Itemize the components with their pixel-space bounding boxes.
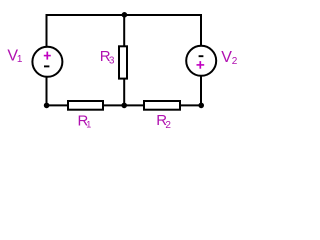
wire right vertical upper (top rail to V2 top) bbox=[200, 14, 202, 46]
label R3 bbox=[100, 48, 115, 67]
V1 plus terminal mark bbox=[44, 52, 51, 60]
voltage source V1 bbox=[32, 47, 62, 77]
voltage source V2 bbox=[186, 46, 216, 76]
label V1 bbox=[7, 47, 23, 65]
svg-text:2: 2 bbox=[232, 56, 238, 67]
junction bottom right bbox=[198, 103, 204, 109]
wire middle vertical upper (top junction to R3 top) bbox=[123, 15, 125, 46]
wire left vertical upper (top rail to V1 top) bbox=[46, 14, 48, 47]
wire left vertical lower (V1 bottom to bottom rail) bbox=[46, 77, 48, 106]
V1 minus terminal mark bbox=[44, 65, 49, 67]
resistor R3 (vertical) bbox=[119, 46, 127, 78]
svg-text:V: V bbox=[221, 49, 232, 66]
svg-text:2: 2 bbox=[165, 120, 171, 131]
wire middle vertical lower (R3 bottom to bottom junction) bbox=[123, 79, 125, 105]
wire top horizontal (node A rail) bbox=[46, 14, 203, 16]
junction bottom middle bbox=[121, 103, 127, 109]
wire right vertical lower (V2 bottom to bottom rail) bbox=[200, 76, 202, 106]
svg-text:1: 1 bbox=[86, 119, 91, 129]
wire bottom horizontal (bottom rail) bbox=[47, 104, 202, 106]
label R1 bbox=[78, 113, 92, 130]
junction bottom left bbox=[44, 103, 50, 109]
junction top (V1/R3/V2 top node) bbox=[122, 12, 128, 18]
label R2 bbox=[156, 112, 171, 131]
svg-text:1: 1 bbox=[17, 54, 23, 65]
resistor R2 (horizontal) bbox=[144, 101, 180, 110]
label V2 bbox=[221, 49, 238, 67]
V2 plus terminal mark bbox=[197, 61, 205, 69]
svg-text:3: 3 bbox=[109, 56, 115, 67]
resistor R1 (horizontal) bbox=[68, 101, 103, 110]
V2 minus terminal mark bbox=[199, 55, 204, 57]
